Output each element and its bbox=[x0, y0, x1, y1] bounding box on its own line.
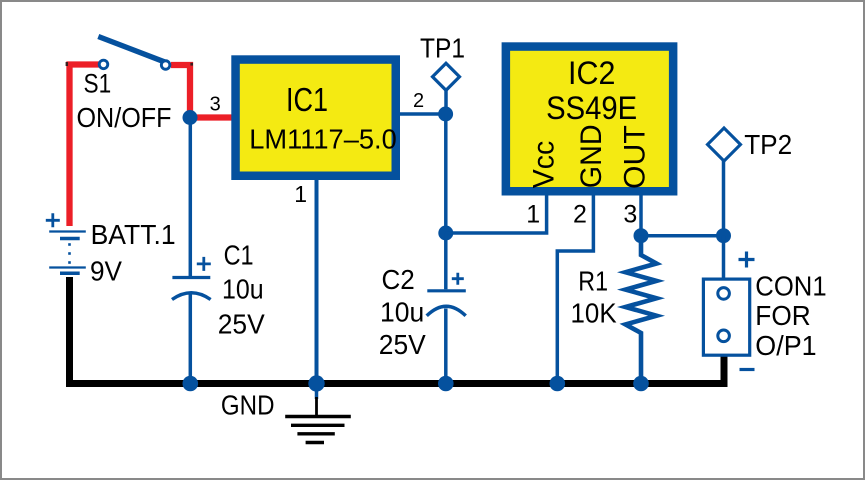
wire corner notch left bbox=[66, 62, 68, 66]
svg-text:GND: GND bbox=[575, 124, 608, 188]
svg-text:TP2: TP2 bbox=[744, 129, 792, 160]
svg-text:10u: 10u bbox=[380, 297, 424, 328]
wire: C2 node to IC2 pin 1 (blue) bbox=[446, 195, 547, 233]
svg-text:O/P1: O/P1 bbox=[755, 330, 816, 361]
svg-text:IC2: IC2 bbox=[568, 55, 615, 91]
node: junction at C2 / IC2 pin 1 bbox=[438, 226, 453, 241]
svg-text:10K: 10K bbox=[571, 298, 617, 329]
label C2 value 10u bbox=[380, 297, 424, 328]
svg-text:S1: S1 bbox=[84, 69, 112, 99]
label 9V bbox=[90, 256, 122, 287]
wire: IC1 pin 2 to TP1 node (blue) bbox=[400, 112, 446, 116]
svg-text:3: 3 bbox=[623, 200, 637, 228]
node: junction at TP1 / IC1 pin 2 bbox=[438, 107, 453, 122]
svg-text:2: 2 bbox=[413, 90, 424, 112]
capacitor C2 top plate bbox=[427, 289, 466, 292]
label CON1 bbox=[755, 270, 826, 301]
node: junction at IC1 pin 3 bbox=[183, 110, 198, 125]
capacitor C2 curved plate bbox=[427, 306, 466, 316]
connector CON1 pin circle top bbox=[718, 288, 730, 300]
label O/P1 bbox=[755, 330, 816, 361]
IC2 body bbox=[506, 47, 673, 192]
capacitor C1 top plate bbox=[172, 276, 210, 279]
label pin 1 of IC1 bbox=[294, 181, 307, 207]
switch S1 lever bbox=[98, 37, 164, 62]
wire: C2 to ground rail (blue) bbox=[444, 309, 448, 384]
svg-text:IC1: IC1 bbox=[286, 82, 328, 119]
svg-text:GND: GND bbox=[221, 389, 275, 420]
wire corner notch right bbox=[190, 63, 193, 66]
connector CON1 body bbox=[703, 279, 749, 355]
wire: TP2 node to CON1 (blue) bbox=[722, 236, 726, 279]
node: rail junction at C2 bbox=[438, 376, 454, 392]
svg-text:25V: 25V bbox=[379, 329, 426, 360]
battery BATT.1 symbol bbox=[49, 232, 86, 274]
node: rail junction at C1 bbox=[183, 376, 199, 392]
node: rail junction at GND bbox=[308, 375, 324, 391]
svg-text:2: 2 bbox=[573, 200, 587, 228]
svg-text:C2: C2 bbox=[382, 264, 415, 295]
test point TP1 diamond bbox=[433, 63, 460, 90]
node: rail junction at R1 bbox=[633, 376, 649, 392]
svg-text:9V: 9V bbox=[90, 256, 122, 287]
wire: C2 node down to C2 (blue) bbox=[444, 233, 448, 289]
svg-text:C1: C1 bbox=[224, 240, 254, 271]
svg-text:BATT.1: BATT.1 bbox=[91, 219, 176, 250]
label C2 bbox=[382, 264, 415, 295]
label SS49E bbox=[546, 90, 637, 126]
label IC2 bbox=[568, 55, 615, 91]
wire: TP1 node down to C2 node (blue) bbox=[444, 114, 448, 233]
label FOR bbox=[755, 300, 810, 331]
label ON/OFF bbox=[77, 102, 172, 133]
wire: IC2 pin 3 to OUT node (blue) bbox=[639, 195, 643, 236]
label pin 3 of IC2 bbox=[623, 200, 637, 228]
label pin 3 of IC1 bbox=[210, 93, 221, 115]
wire: battery + up to switch S1 (red) bbox=[70, 65, 100, 227]
wire: IC1 pin 1 to ground rail (blue) bbox=[315, 180, 319, 384]
svg-text:LM1117–5.0: LM1117–5.0 bbox=[249, 124, 397, 155]
svg-text:10u: 10u bbox=[222, 273, 264, 304]
switch S1 right terminal bbox=[161, 61, 170, 70]
label pin 2 of IC2 bbox=[573, 200, 587, 228]
svg-text:25V: 25V bbox=[218, 308, 265, 339]
ground symbol bbox=[285, 388, 351, 443]
label S1 bbox=[84, 69, 112, 99]
wire: TP2 diamond to TP2 node (blue) bbox=[722, 161, 726, 236]
svg-text:ON/OFF: ON/OFF bbox=[77, 102, 172, 133]
label pin 1 of IC2 bbox=[526, 200, 540, 228]
label LM1117-5.0 bbox=[249, 124, 397, 155]
label C1 value 25V bbox=[218, 308, 265, 339]
svg-text:FOR: FOR bbox=[755, 300, 810, 331]
label BATT.1 bbox=[91, 219, 176, 250]
svg-text:1: 1 bbox=[526, 200, 540, 228]
capacitor C2 plus sign bbox=[452, 273, 464, 285]
label IC2 pin GND bbox=[575, 124, 608, 188]
svg-text:Vcc: Vcc bbox=[527, 141, 560, 188]
label CON1 plus bbox=[739, 252, 755, 268]
label TP2 bbox=[744, 129, 792, 160]
label C2 value 25V bbox=[379, 329, 426, 360]
svg-text:TP1: TP1 bbox=[420, 32, 465, 63]
IC1 body bbox=[236, 60, 396, 176]
label IC2 pin Vcc bbox=[527, 141, 560, 188]
label C1 bbox=[224, 240, 254, 271]
capacitor C1 plus sign bbox=[197, 257, 211, 271]
svg-text:CON1: CON1 bbox=[755, 270, 826, 301]
node: junction at IC2 pin 3 / R1 bbox=[634, 228, 649, 243]
svg-text:SS49E: SS49E bbox=[546, 90, 637, 126]
label GND bbox=[221, 389, 275, 420]
label pin 2 of IC1 bbox=[413, 90, 424, 112]
label IC2 pin OUT bbox=[619, 125, 652, 189]
resistor R1 bbox=[626, 236, 657, 384]
label IC1 bbox=[286, 82, 328, 119]
capacitor C1 curved plate bbox=[172, 293, 211, 300]
wire: battery - along ground rail up to CON1 (black) bbox=[70, 277, 725, 384]
label R1 bbox=[578, 266, 608, 297]
svg-text:1: 1 bbox=[294, 181, 307, 207]
label CON1 minus bbox=[740, 368, 755, 371]
wire: node to C1 (blue) bbox=[189, 118, 193, 277]
wire: TP1 diamond to node (blue) bbox=[444, 90, 448, 114]
node: junction at TP2 / CON1 bbox=[716, 228, 731, 243]
battery BATT.1 plus sign bbox=[46, 213, 60, 227]
wire: IC2 pin 2 to ground rail (blue) bbox=[557, 195, 593, 384]
svg-text:R1: R1 bbox=[578, 266, 608, 297]
wire: OUT node to TP2 node (blue) bbox=[641, 234, 724, 238]
test point TP2 diamond bbox=[708, 128, 741, 161]
label C1 value 10u bbox=[222, 273, 264, 304]
connector CON1 pin circle bottom bbox=[718, 330, 730, 342]
svg-text:OUT: OUT bbox=[619, 125, 652, 189]
label TP1 bbox=[420, 32, 465, 63]
wire: C1 to ground rail (blue) bbox=[189, 293, 193, 384]
node: rail junction at IC2 pin 2 bbox=[550, 376, 566, 392]
switch S1 left terminal bbox=[99, 60, 108, 69]
label R1 value 10K bbox=[571, 298, 617, 329]
wire: switch S1 to node at IC1 pin 3 (red) bbox=[171, 65, 232, 118]
svg-text:3: 3 bbox=[210, 93, 221, 115]
